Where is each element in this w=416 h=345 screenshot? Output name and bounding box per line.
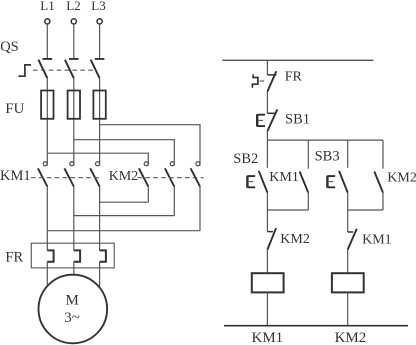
svg-text:L2: L2 (66, 0, 80, 13)
svg-text:FR: FR (285, 70, 303, 85)
svg-text:L1: L1 (40, 0, 54, 13)
svg-text:KM1: KM1 (0, 168, 31, 184)
svg-text:KM2: KM2 (280, 232, 310, 247)
svg-text:KM2: KM2 (387, 171, 416, 186)
svg-text:KM2: KM2 (335, 330, 367, 345)
svg-text:M: M (66, 292, 79, 308)
svg-text:FU: FU (5, 101, 24, 117)
svg-text:KM2: KM2 (109, 169, 139, 184)
svg-text:3~: 3~ (64, 310, 80, 326)
svg-text:KM1: KM1 (269, 170, 299, 185)
svg-text:QS: QS (0, 39, 19, 55)
svg-text:KM1: KM1 (362, 232, 392, 247)
svg-text:SB2: SB2 (233, 151, 258, 167)
svg-text:KM1: KM1 (252, 330, 284, 345)
svg-text:FR: FR (5, 250, 23, 266)
svg-text:SB1: SB1 (285, 112, 310, 128)
svg-text:SB3: SB3 (315, 149, 340, 165)
svg-text:L3: L3 (91, 0, 105, 13)
